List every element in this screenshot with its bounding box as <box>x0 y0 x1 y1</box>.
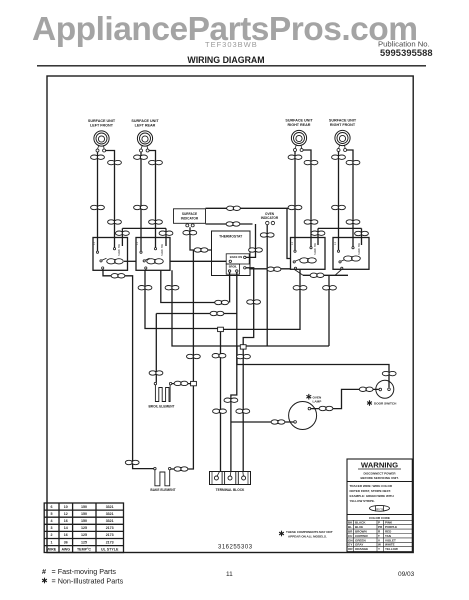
svg-text:BLACK: BLACK <box>355 521 366 525</box>
svg-text:PR: PR <box>378 525 383 529</box>
svg-text:= Fast-moving Parts: = Fast-moving Parts <box>52 567 117 576</box>
svg-text:125: 125 <box>81 540 87 544</box>
svg-text:YELLOW STRIPE.: YELLOW STRIPE. <box>350 499 376 503</box>
svg-text:GN-YL: GN-YL <box>376 507 384 511</box>
svg-text:316255303: 316255303 <box>218 545 253 551</box>
svg-text:WIRING DIAGRAM: WIRING DIAGRAM <box>187 55 264 65</box>
svg-text:LEFT REAR: LEFT REAR <box>135 124 156 128</box>
svg-text:V: V <box>378 538 380 542</box>
svg-text:5: 5 <box>51 512 53 516</box>
svg-text:Y: Y <box>378 547 380 551</box>
svg-text:SURFACE UNIT: SURFACE UNIT <box>285 119 313 123</box>
svg-text:T: T <box>378 534 380 538</box>
svg-text:3: 3 <box>51 526 53 530</box>
svg-text:TRACER WIRE: WIRE COLOR: TRACER WIRE: WIRE COLOR <box>350 484 393 488</box>
svg-text:BAKE ELEMENT: BAKE ELEMENT <box>150 488 175 492</box>
svg-text:TEMP°C: TEMP°C <box>77 547 91 551</box>
svg-text:SURF SW: SURF SW <box>313 242 317 255</box>
svg-text:BROIL ELEMENT: BROIL ELEMENT <box>149 405 175 409</box>
svg-text:SURFACE UNIT: SURFACE UNIT <box>131 119 159 123</box>
svg-text:LAMP: LAMP <box>313 399 322 403</box>
svg-text:CU: CU <box>348 534 352 538</box>
svg-text:ORANGE: ORANGE <box>355 547 368 551</box>
svg-text:OR: OR <box>348 547 353 551</box>
svg-text:INDICATOR: INDICATOR <box>261 216 279 220</box>
svg-text:= Non-Illustrated Parts: = Non-Illustrated Parts <box>52 577 124 586</box>
svg-text:3321: 3321 <box>106 505 114 509</box>
svg-text:THESE COMPONENTS MAY NOT: THESE COMPONENTS MAY NOT <box>286 530 333 534</box>
svg-text:16: 16 <box>64 519 68 523</box>
svg-text:3321: 3321 <box>106 519 114 523</box>
svg-text:1: 1 <box>51 540 53 544</box>
svg-text:WHITE: WHITE <box>385 543 395 547</box>
svg-text:GY: GY <box>348 543 352 547</box>
svg-text:NOTED FIRST, STRIPE NEXT.: NOTED FIRST, STRIPE NEXT. <box>350 489 392 493</box>
svg-text:SURFACE: SURFACE <box>182 212 197 216</box>
svg-text:36: 36 <box>64 540 68 544</box>
svg-text:5995395588: 5995395588 <box>380 48 433 58</box>
svg-text:WIRE: WIRE <box>47 547 57 551</box>
svg-text:INDICATOR: INDICATOR <box>181 217 199 221</box>
svg-text:12: 12 <box>64 512 68 516</box>
svg-text:W: W <box>378 543 381 547</box>
svg-text:GREEN: GREEN <box>355 538 366 542</box>
svg-text:150: 150 <box>81 505 87 509</box>
svg-text:TERMINAL BLOCK: TERMINAL BLOCK <box>216 488 245 492</box>
svg-text:DISCONNECT POWER: DISCONNECT POWER <box>363 472 396 476</box>
svg-text:RED: RED <box>385 530 392 534</box>
svg-text:PURPLE: PURPLE <box>385 525 397 529</box>
svg-text:EXAMPLE: GREEN WIRE WITH: EXAMPLE: GREEN WIRE WITH <box>350 494 394 498</box>
svg-text:4: 4 <box>51 519 53 523</box>
svg-text:6: 6 <box>51 505 53 509</box>
svg-text:BROIL: BROIL <box>229 265 238 269</box>
svg-text:14: 14 <box>64 526 68 530</box>
svg-text:COPPER: COPPER <box>355 534 369 538</box>
svg-text:GN: GN <box>348 538 353 542</box>
svg-text:125: 125 <box>81 533 87 537</box>
svg-text:2173: 2173 <box>106 533 114 537</box>
svg-text:THERMOSTAT: THERMOSTAT <box>219 235 243 239</box>
svg-text:P: P <box>378 521 380 525</box>
svg-text:BK: BK <box>348 521 353 525</box>
svg-text:150: 150 <box>81 512 87 516</box>
svg-text:11: 11 <box>226 571 233 578</box>
svg-text:PINK: PINK <box>385 521 393 525</box>
svg-text:UL STYLE: UL STYLE <box>101 547 119 551</box>
svg-text:2173: 2173 <box>106 540 114 544</box>
svg-text:RIGHT REAR: RIGHT REAR <box>288 123 311 127</box>
svg-text:BLUE: BLUE <box>355 525 363 529</box>
svg-text:SURF SW: SURF SW <box>160 243 164 256</box>
svg-text:#: # <box>42 567 46 576</box>
svg-text:16: 16 <box>64 533 68 537</box>
svg-text:RIGHT FRONT: RIGHT FRONT <box>330 123 356 127</box>
svg-text:150: 150 <box>81 519 87 523</box>
svg-text:SURFACE UNIT: SURFACE UNIT <box>329 119 357 123</box>
svg-text:BROWN: BROWN <box>355 530 367 534</box>
svg-text:GRAY: GRAY <box>355 543 363 547</box>
svg-text:SURFACE UNIT: SURFACE UNIT <box>88 119 116 123</box>
svg-text:2: 2 <box>51 533 53 537</box>
svg-text:BL: BL <box>348 525 352 529</box>
svg-text:SURF SW: SURF SW <box>357 242 361 255</box>
svg-text:R: R <box>378 530 381 534</box>
svg-text:09/03: 09/03 <box>398 571 415 578</box>
svg-text:3321: 3321 <box>106 512 114 516</box>
svg-text:VIOLET: VIOLET <box>385 538 396 542</box>
svg-text:WARNING: WARNING <box>361 460 398 469</box>
svg-text:TEF303BWB: TEF303BWB <box>205 40 258 49</box>
svg-text:SURF SW: SURF SW <box>117 243 121 256</box>
svg-text:TAN: TAN <box>385 534 391 538</box>
svg-text:LEFT FRONT: LEFT FRONT <box>90 124 114 128</box>
svg-text:BAKE ON: BAKE ON <box>230 255 242 259</box>
svg-text:2173: 2173 <box>106 526 114 530</box>
svg-text:10: 10 <box>64 505 68 509</box>
svg-text:BR: BR <box>348 530 353 534</box>
svg-text:YELLOW: YELLOW <box>385 547 398 551</box>
svg-text:COLOR CODE: COLOR CODE <box>369 516 390 520</box>
svg-text:125: 125 <box>81 526 87 530</box>
svg-text:BEFORE SERVICING UNIT.: BEFORE SERVICING UNIT. <box>360 476 398 480</box>
svg-text:APPEAR ON ALL MODELS.: APPEAR ON ALL MODELS. <box>288 535 327 539</box>
svg-text:DOOR SWITCH: DOOR SWITCH <box>374 402 397 406</box>
svg-text:AWG: AWG <box>62 547 71 551</box>
